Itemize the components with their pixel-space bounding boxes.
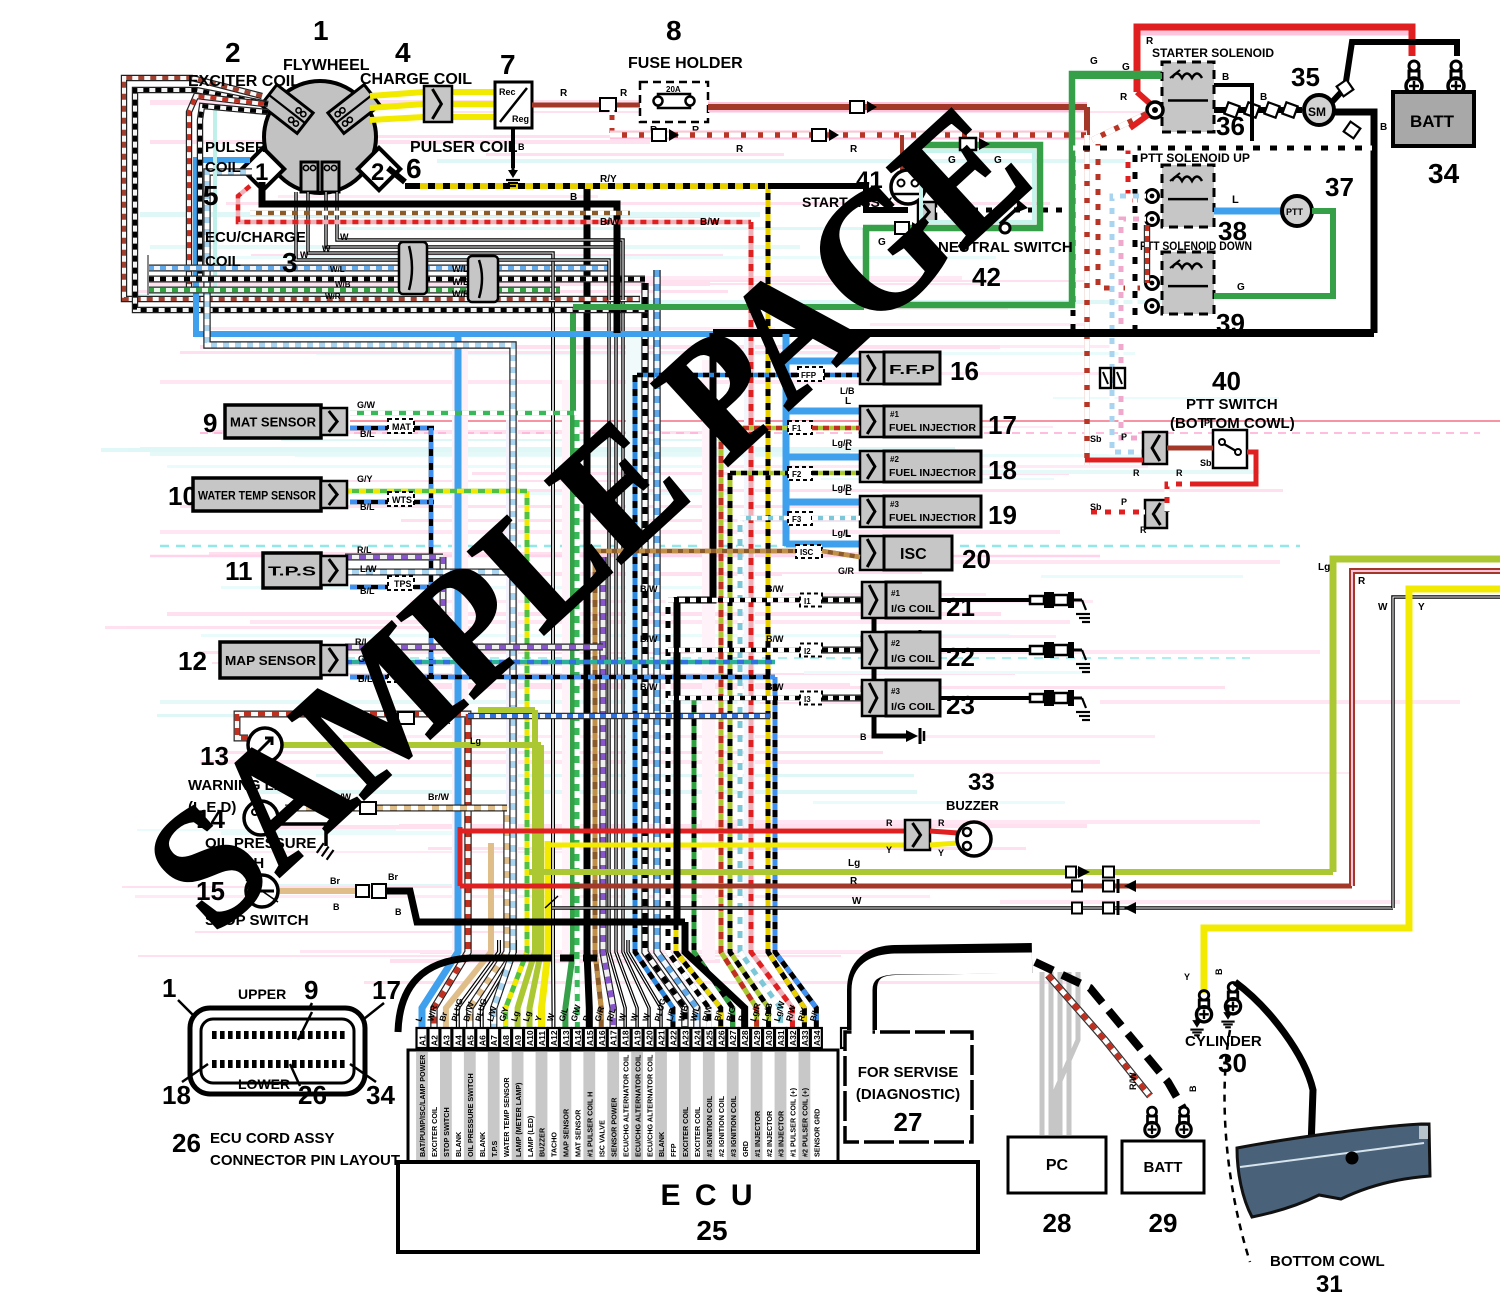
svg-text:T.P.S: T.P.S — [490, 1141, 499, 1157]
svg-text:B/L: B/L — [360, 429, 375, 439]
svg-text:R: R — [1176, 468, 1183, 478]
svg-text:A26: A26 — [716, 1030, 726, 1046]
svg-text:W: W — [1378, 602, 1388, 613]
PTT solenoid up 37/38 — [1162, 165, 1214, 227]
svg-text:PULSER: PULSER — [205, 139, 266, 156]
fuel injector 19 — [860, 496, 884, 527]
svg-text:I/G COIL: I/G COIL — [891, 604, 935, 615]
svg-text:1: 1 — [162, 973, 176, 1003]
svg-text:A14: A14 — [573, 1030, 583, 1046]
svg-text:22: 22 — [946, 642, 975, 672]
svg-text:ECU CORD ASSY: ECU CORD ASSY — [210, 1130, 334, 1147]
svg-text:G/W: G/W — [357, 400, 376, 410]
svg-text:B: B — [518, 142, 525, 152]
svg-text:12: 12 — [178, 646, 207, 676]
svg-text:23: 23 — [946, 690, 975, 720]
svg-text:I/G COIL: I/G COIL — [891, 654, 935, 665]
svg-text:6: 6 — [406, 153, 422, 184]
svg-text:A32: A32 — [788, 1030, 798, 1046]
svg-text:A12: A12 — [549, 1030, 559, 1046]
svg-text:W/L: W/L — [452, 264, 469, 274]
svg-text:PULSER COIL: PULSER COIL — [410, 139, 518, 156]
svg-text:A16: A16 — [597, 1030, 607, 1046]
svg-text:EXCITER COIL: EXCITER COIL — [681, 1106, 690, 1157]
neutral switch 42 — [863, 145, 1040, 228]
battery 29 — [1122, 1141, 1204, 1193]
svg-text:FUEL INJECTIOR: FUEL INJECTIOR — [889, 512, 976, 524]
svg-text:A11: A11 — [537, 1031, 547, 1046]
svg-text:Reg: Reg — [512, 114, 529, 124]
svg-text:B/W: B/W — [640, 682, 658, 692]
svg-text:F.F.P: F.F.P — [889, 362, 936, 377]
PTT solenoid down 39 — [1162, 252, 1214, 314]
svg-text:EXCITER COIL: EXCITER COIL — [188, 73, 300, 90]
svg-text:A10: A10 — [525, 1030, 535, 1046]
svg-text:B: B — [1380, 122, 1387, 133]
svg-text:B: B — [395, 907, 402, 917]
svg-text:BATT: BATT — [1410, 112, 1455, 131]
svg-text:PTT: PTT — [1286, 207, 1304, 217]
fuel injector 18 — [860, 451, 884, 482]
svg-text:ECU/CHG ALTERNATOR COIL: ECU/CHG ALTERNATOR COIL — [621, 1054, 630, 1157]
svg-text:#1 PULSER COIL (+): #1 PULSER COIL (+) — [789, 1087, 798, 1157]
svg-text:#2 INJECTOR: #2 INJECTOR — [765, 1110, 774, 1157]
svg-text:3: 3 — [282, 247, 298, 278]
svg-text:#3 INJECTOR: #3 INJECTOR — [777, 1110, 786, 1157]
svg-text:Y: Y — [938, 848, 944, 858]
svg-text:A17: A17 — [609, 1030, 619, 1046]
svg-text:A23: A23 — [680, 1030, 690, 1046]
svg-text:2: 2 — [371, 159, 384, 186]
svg-text:G: G — [1122, 62, 1130, 73]
svg-text:I3: I3 — [804, 695, 811, 704]
ECU connector A1-A34 — [408, 1050, 838, 1162]
svg-text:PC: PC — [1046, 1157, 1069, 1174]
svg-text:7: 7 — [500, 49, 516, 80]
svg-text:BLANK: BLANK — [454, 1131, 463, 1157]
svg-text:8: 8 — [666, 15, 682, 46]
svg-text:F2: F2 — [792, 470, 802, 479]
svg-text:A7: A7 — [489, 1035, 499, 1046]
svg-text:ECU/CHG ALTERNATOR COIL: ECU/CHG ALTERNATOR COIL — [633, 1054, 642, 1157]
svg-text:B/W: B/W — [600, 217, 620, 228]
svg-text:11: 11 — [225, 556, 253, 586]
svg-text:A1: A1 — [418, 1035, 428, 1046]
svg-text:B/L: B/L — [360, 502, 375, 512]
svg-text:A6: A6 — [477, 1035, 487, 1046]
svg-text:16: 16 — [950, 356, 979, 386]
svg-text:SENSOR GRD: SENSOR GRD — [813, 1109, 822, 1157]
svg-text:FOR SERVISE: FOR SERVISE — [858, 1064, 959, 1081]
svg-text:A24: A24 — [692, 1030, 702, 1046]
svg-text:A21: A21 — [657, 1030, 667, 1046]
svg-text:18: 18 — [162, 1080, 191, 1110]
svg-text:30: 30 — [1218, 1048, 1247, 1078]
svg-text:#2 IGNITION COIL: #2 IGNITION COIL — [717, 1095, 726, 1157]
svg-text:19: 19 — [988, 500, 1017, 530]
svg-text:20: 20 — [962, 544, 991, 574]
starter solenoid 36 — [1162, 62, 1214, 132]
svg-text:G/R: G/R — [838, 566, 855, 576]
svg-text:9: 9 — [304, 975, 318, 1005]
svg-text:21: 21 — [946, 592, 975, 622]
svg-text:Y: Y — [886, 845, 892, 855]
svg-text:A9: A9 — [513, 1035, 523, 1046]
wire — [1333, 559, 1500, 872]
svg-text:A34: A34 — [812, 1030, 822, 1046]
svg-text:R: R — [938, 818, 945, 828]
svg-text:BLANK: BLANK — [478, 1131, 487, 1157]
svg-text:PTT SOLENOID UP: PTT SOLENOID UP — [1140, 151, 1250, 165]
svg-text:SENSOR POWER: SENSOR POWER — [609, 1097, 618, 1157]
svg-text:FUEL INJECTIOR: FUEL INJECTIOR — [889, 422, 976, 434]
svg-text:B/W: B/W — [766, 682, 784, 692]
svg-text:BUZZER: BUZZER — [538, 1127, 547, 1157]
svg-text:WATER TEMP SENSOR: WATER TEMP SENSOR — [198, 489, 316, 503]
svg-text:R/Y: R/Y — [600, 174, 617, 185]
svg-text:COIL: COIL — [205, 159, 241, 176]
svg-text:Rec: Rec — [499, 87, 516, 97]
svg-text:MAT SENSOR: MAT SENSOR — [574, 1109, 583, 1157]
svg-text:37: 37 — [1325, 172, 1354, 202]
svg-text:R: R — [1358, 576, 1366, 587]
svg-text:B: B — [570, 192, 577, 203]
svg-text:Br/W: Br/W — [428, 792, 450, 802]
svg-text:A18: A18 — [621, 1030, 631, 1046]
svg-text:L: L — [1232, 194, 1239, 206]
svg-text:P: P — [1204, 418, 1210, 428]
svg-text:A22: A22 — [668, 1030, 678, 1046]
svg-text:SM: SM — [1308, 105, 1326, 119]
svg-text:Lg/R: Lg/R — [832, 438, 852, 448]
svg-text:LAMP (METER LAMP): LAMP (METER LAMP) — [514, 1082, 523, 1157]
wire — [850, 1012, 857, 1030]
svg-text:W/R: W/R — [452, 289, 470, 299]
svg-text:E C U: E C U — [660, 1179, 755, 1212]
wire — [1072, 73, 1162, 79]
wire — [101, 100, 1500, 984]
svg-text:A13: A13 — [561, 1030, 571, 1046]
diagnostic connector 27 — [845, 1032, 972, 1142]
svg-text:Y: Y — [1184, 972, 1190, 982]
svg-text:OIL PRESSURE SWITCH: OIL PRESSURE SWITCH — [466, 1073, 475, 1157]
svg-text:R: R — [1120, 92, 1128, 103]
svg-text:FFP: FFP — [669, 1143, 678, 1157]
svg-text:Sb: Sb — [1090, 434, 1102, 444]
svg-text:A20: A20 — [645, 1030, 655, 1046]
svg-text:A33: A33 — [800, 1030, 810, 1046]
svg-text:26: 26 — [172, 1128, 201, 1158]
svg-text:31: 31 — [1316, 1271, 1343, 1293]
svg-text:#1 PULSER COIL H: #1 PULSER COIL H — [586, 1092, 595, 1157]
svg-text:I/G COIL: I/G COIL — [891, 702, 935, 713]
svg-text:26: 26 — [298, 1080, 327, 1110]
svg-text:R: R — [886, 818, 893, 828]
wire — [708, 102, 1087, 112]
svg-text:G/Y: G/Y — [357, 474, 373, 484]
svg-text:#1 INJECTOR: #1 INJECTOR — [753, 1110, 762, 1157]
svg-text:A19: A19 — [633, 1030, 643, 1046]
svg-text:(DIAGNOSTIC): (DIAGNOSTIC) — [856, 1086, 960, 1103]
svg-text:EXCITER COIL: EXCITER COIL — [693, 1106, 702, 1157]
svg-text:B/W: B/W — [640, 634, 658, 644]
svg-text:F3: F3 — [792, 515, 802, 524]
svg-text:WTS: WTS — [392, 495, 412, 505]
svg-text:Lg: Lg — [1318, 562, 1330, 573]
svg-text:BAT/PUMP/ISC/LAMP POWER: BAT/PUMP/ISC/LAMP POWER — [418, 1054, 427, 1157]
svg-text:A15: A15 — [585, 1030, 595, 1046]
svg-text:I1: I1 — [804, 597, 811, 606]
svg-text:FUSE HOLDER: FUSE HOLDER — [628, 55, 743, 72]
svg-text:5: 5 — [203, 180, 219, 211]
svg-text:27: 27 — [894, 1107, 923, 1137]
svg-text:P: P — [1121, 497, 1127, 507]
svg-text:#1: #1 — [891, 589, 900, 598]
svg-text:W: W — [340, 232, 349, 242]
PC 28 — [1008, 1137, 1106, 1193]
flywheel 1 — [264, 81, 376, 193]
svg-text:R: R — [736, 144, 744, 155]
svg-text:WATER TEMP SENSOR: WATER TEMP SENSOR — [502, 1077, 511, 1157]
svg-text:W/B: W/B — [335, 280, 351, 289]
svg-text:LAMP (LED): LAMP (LED) — [526, 1115, 535, 1157]
svg-text:COIL: COIL — [205, 253, 241, 270]
svg-text:Lg/L: Lg/L — [832, 528, 851, 538]
cylinder 30 — [1196, 991, 1211, 1022]
svg-text:FLYWHEEL: FLYWHEEL — [283, 57, 370, 74]
svg-text:BOTTOM COWL: BOTTOM COWL — [1270, 1253, 1385, 1270]
svg-text:R: R — [560, 88, 568, 99]
start assy 41 — [891, 170, 925, 204]
wire — [1235, 982, 1313, 1148]
svg-text:29: 29 — [1149, 1208, 1178, 1238]
svg-text:A4: A4 — [453, 1035, 463, 1046]
svg-text:34: 34 — [366, 1080, 395, 1110]
svg-text:#2: #2 — [890, 455, 899, 464]
svg-text:LOWER: LOWER — [238, 1076, 290, 1092]
svg-text:Lg/B: Lg/B — [832, 483, 852, 493]
svg-text:B: B — [1222, 72, 1229, 83]
svg-text:B: B — [1214, 968, 1224, 975]
svg-text:A30: A30 — [764, 1030, 774, 1046]
svg-text:17: 17 — [372, 975, 401, 1005]
svg-text:STOP SWITCH: STOP SWITCH — [442, 1107, 451, 1157]
svg-text:B: B — [1260, 92, 1267, 103]
svg-text:R: R — [850, 876, 858, 887]
FFP 16 — [860, 352, 884, 384]
svg-text:A8: A8 — [501, 1035, 511, 1046]
svg-text:1: 1 — [255, 159, 268, 186]
svg-text:R: R — [620, 88, 628, 99]
svg-text:W: W — [300, 250, 309, 260]
svg-text:G: G — [1090, 56, 1098, 67]
svg-text:A31: A31 — [776, 1030, 786, 1046]
svg-text:BUZZER: BUZZER — [946, 798, 999, 813]
svg-text:B: B — [1188, 1085, 1198, 1092]
svg-text:40: 40 — [1212, 366, 1241, 396]
svg-text:PTT SWITCH: PTT SWITCH — [1186, 396, 1278, 413]
svg-text:A3: A3 — [441, 1035, 451, 1046]
wire — [713, 329, 1374, 337]
svg-text:B/W: B/W — [700, 217, 720, 228]
svg-text:W/L: W/L — [330, 265, 345, 274]
svg-text:A29: A29 — [752, 1030, 762, 1046]
svg-text:B/W: B/W — [766, 634, 784, 644]
svg-text:TACHO: TACHO — [550, 1132, 559, 1157]
ISC 20 — [860, 536, 884, 570]
svg-text:2: 2 — [225, 37, 241, 68]
svg-text:#2: #2 — [891, 639, 900, 648]
svg-text:R: R — [1133, 468, 1140, 478]
wire — [398, 958, 552, 1032]
fuel injector 17 — [860, 406, 884, 437]
svg-text:FUEL INJECTIOR: FUEL INJECTIOR — [889, 467, 976, 479]
svg-text:CHARGE COIL: CHARGE COIL — [360, 71, 472, 88]
svg-text:20A: 20A — [666, 85, 681, 94]
svg-text:MAT SENSOR: MAT SENSOR — [230, 415, 317, 430]
svg-text:EXCITER COIL: EXCITER COIL — [430, 1106, 439, 1157]
svg-text:P: P — [1121, 432, 1127, 442]
svg-text:28: 28 — [1043, 1208, 1072, 1238]
svg-text:9: 9 — [203, 408, 217, 438]
svg-text:#3: #3 — [891, 687, 900, 696]
svg-text:GRD: GRD — [741, 1141, 750, 1157]
svg-text:I2: I2 — [804, 647, 811, 656]
svg-text:Sb: Sb — [1090, 502, 1102, 512]
svg-text:T.P.S: T.P.S — [268, 564, 317, 579]
ignition coil I1 — [668, 598, 800, 603]
svg-text:STARTER SOLENOID: STARTER SOLENOID — [1152, 46, 1274, 60]
svg-text:#3: #3 — [890, 500, 899, 509]
svg-text:W: W — [852, 896, 862, 907]
svg-text:CONNECTOR PIN LAYOUT: CONNECTOR PIN LAYOUT — [210, 1152, 400, 1169]
svg-text:W/B: W/B — [452, 277, 470, 287]
svg-text:25: 25 — [696, 1215, 727, 1246]
svg-text:B: B — [860, 732, 867, 742]
svg-text:#1 IGNITION COIL: #1 IGNITION COIL — [705, 1095, 714, 1157]
svg-text:ISC VALVE: ISC VALVE — [597, 1120, 606, 1157]
svg-text:#2 PULSER COIL (+): #2 PULSER COIL (+) — [801, 1087, 810, 1157]
svg-text:W/R: W/R — [325, 292, 341, 301]
svg-text:A25: A25 — [704, 1030, 714, 1046]
wire — [1103, 867, 1114, 878]
ignition coil I3 — [668, 696, 800, 701]
svg-text:Lg: Lg — [848, 858, 860, 869]
fuse holder 8 — [532, 103, 640, 108]
svg-text:ECU/CHARGE: ECU/CHARGE — [205, 229, 306, 246]
svg-text:35: 35 — [1291, 62, 1320, 92]
svg-text:G: G — [1237, 282, 1245, 293]
svg-text:R/W: R/W — [1128, 1072, 1138, 1090]
svg-text:ISC: ISC — [900, 546, 927, 563]
svg-text:33: 33 — [968, 769, 995, 796]
svg-text:B: B — [333, 902, 340, 912]
ignition coil I2 — [668, 648, 800, 653]
bottom cowl 31 — [1237, 1124, 1430, 1217]
PTT switch 40 — [1100, 368, 1111, 388]
wire — [124, 78, 640, 299]
svg-text:UPPER: UPPER — [238, 986, 286, 1002]
svg-text:W: W — [322, 244, 331, 254]
svg-text:34: 34 — [1428, 158, 1460, 189]
ECU 25 — [841, 1028, 855, 1048]
svg-text:R/L: R/L — [357, 545, 372, 555]
svg-text:ECU/CHG ALTERNATOR COIL: ECU/CHG ALTERNATOR COIL — [645, 1054, 654, 1157]
svg-text:18: 18 — [988, 455, 1017, 485]
svg-text:L/W: L/W — [360, 564, 377, 574]
svg-text:R: R — [1140, 525, 1147, 535]
wire — [783, 334, 790, 546]
svg-text:17: 17 — [988, 410, 1017, 440]
svg-text:#3 IGNITION COIL: #3 IGNITION COIL — [729, 1095, 738, 1157]
svg-text:MAP SENSOR: MAP SENSOR — [562, 1108, 571, 1157]
svg-text:Br: Br — [388, 872, 398, 882]
svg-text:ISC: ISC — [800, 548, 814, 557]
svg-text:BATT: BATT — [1144, 1159, 1183, 1176]
svg-text:Sb: Sb — [1200, 458, 1212, 468]
rectifier 7 — [495, 82, 532, 128]
svg-text:A28: A28 — [740, 1030, 750, 1046]
svg-text:B/W: B/W — [766, 584, 784, 594]
wire — [350, 426, 434, 431]
wire — [1146, 190, 1159, 203]
svg-text:4: 4 — [395, 37, 411, 68]
svg-text:Y: Y — [1418, 602, 1425, 613]
wire — [422, 334, 458, 1028]
svg-text:A27: A27 — [728, 1030, 738, 1046]
svg-text:#1: #1 — [890, 410, 899, 419]
svg-text:1: 1 — [313, 15, 329, 46]
svg-text:MAT: MAT — [392, 422, 411, 432]
svg-text:BLANK: BLANK — [657, 1131, 666, 1157]
svg-text:PTT SOLENOID DOWN: PTT SOLENOID DOWN — [1140, 239, 1252, 253]
svg-text:A5: A5 — [465, 1035, 475, 1046]
svg-text:A2: A2 — [429, 1035, 439, 1046]
